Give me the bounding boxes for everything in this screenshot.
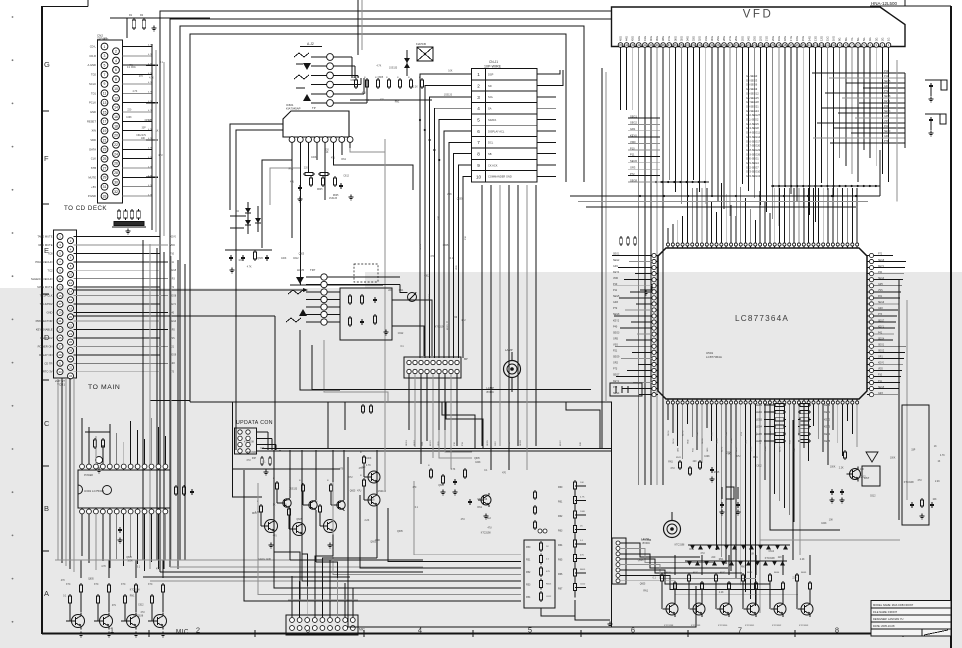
svg-text:8G: 8G [844,38,848,41]
svg-text:KEY5: KEY5 [824,440,831,443]
svg-text:7G: 7G [850,38,854,41]
svg-text:SEG8: SEG8 [630,178,637,182]
transistor Q304 [148,583,167,637]
potentiometer LEVEL body [664,512,681,538]
svg-text:SEG5: SEG5 [630,159,637,163]
wires IC601 area to left [262,160,300,248]
svg-text:GR3: GR3 [613,301,619,304]
svg-text:10K: 10K [829,520,834,522]
svg-text:3: 3 [104,54,106,58]
rotated net labels mid bundle [420,215,467,330]
svg-text:SEG9: SEG9 [750,446,752,452]
svg-text:15: 15 [103,110,107,114]
svg-text:37G: 37G [667,36,671,41]
svg-text:P21: P21 [613,350,618,353]
svg-text:G13-SEG8: G13-SEG8 [746,126,759,130]
svg-text:PDATA/ECHO: PDATA/ECHO [35,260,52,264]
svg-text:18G: 18G [783,36,787,41]
svg-text:C612: C612 [860,476,866,478]
svg-text:2: 2 [115,50,117,54]
svg-text:KEY0: KEY0 [630,134,637,138]
svg-text:12: 12 [69,281,73,285]
svg-text:47U: 47U [461,519,466,521]
svg-text:C612: C612 [870,495,876,497]
svg-text:100K: 100K [475,462,481,464]
svg-text:2.2K: 2.2K [800,559,805,561]
crystal X501 [719,487,740,515]
svg-text:MUTE: MUTE [88,175,96,179]
svg-text:SEG5: SEG5 [878,387,885,389]
svg-text:VDD: VDD [90,138,96,142]
svg-text:23: 23 [58,328,62,332]
svg-text:Q605: Q605 [257,258,263,260]
svg-text:COMMANDER GND: COMMANDER GND [488,175,512,179]
svg-text:1SS133: 1SS133 [144,120,153,122]
svg-text:R645: R645 [801,572,807,574]
svg-text:G4-SEG9: G4-SEG9 [746,87,758,91]
wire IC601 to left bus [230,124,283,450]
svg-text:4G: 4G [868,38,872,41]
svg-text:6: 6 [477,129,480,134]
svg-text:SCL: SCL [488,95,494,99]
svg-text:10K: 10K [260,448,265,450]
svg-text:R54: R54 [526,596,531,599]
svg-text:G24-SEG13: G24-SEG13 [746,174,761,178]
svg-text:KEY3: KEY3 [824,426,831,429]
svg-text:SDATA: SDATA [488,118,497,122]
value labels cluster mid bundle [388,194,466,348]
svg-text:20: 20 [69,315,73,319]
section box bottom-center top edge [150,401,612,628]
svg-text:RN1: RN1 [741,567,746,569]
svg-text:R66: R66 [558,573,563,576]
transistor Q601 [661,573,678,617]
svg-text:G9-SEG24: G9-SEG24 [746,109,759,113]
svg-text:Q605: Q605 [378,77,384,79]
svg-text:33P: 33P [911,449,916,451]
svg-text:KIA7045: KIA7045 [416,42,427,46]
svg-text:LC877364A: LC877364A [735,314,789,323]
svg-text:RN1: RN1 [719,559,724,561]
svg-text:CD TR: CD TR [44,361,52,365]
svg-text:27: 27 [58,344,62,348]
value labels cluster updata [244,441,265,462]
svg-text:C612: C612 [756,465,762,467]
svg-text:GR3: GR3 [884,85,890,88]
transistor Q-P below VCR1 [103,486,112,495]
wires U501 top pins up [668,183,857,243]
wires VCR1 bottom pins down [58,378,74,572]
bus verticals right of CN2 [152,44,164,236]
ground stubs transistor cluster [258,543,333,562]
svg-text:GR1: GR1 [613,265,619,268]
svg-text:LED5: LED5 [756,433,763,436]
svg-text:4.7K: 4.7K [580,497,585,499]
svg-text:19: 19 [58,311,62,315]
svg-text:1: 1 [477,72,480,77]
jack A.J5 contacts [286,277,307,322]
wire bundle left to bottom bus [143,560,423,581]
svg-text:SEG1: SEG1 [878,344,885,346]
svg-text:100K: 100K [704,456,710,458]
svg-text:CD-L: CD-L [90,45,97,49]
connector CN8 pins [407,360,459,373]
svg-text:43G: 43G [631,36,635,41]
VCR1 signal labels [31,235,53,374]
svg-text:GND: GND [90,110,96,114]
svg-text:100K: 100K [580,511,586,513]
transistor Q203 [316,501,337,535]
svg-text:33P: 33P [142,128,147,130]
svg-text:VSS: VSS [884,120,889,123]
connector VCR1 TO MAIN body [54,230,77,378]
svg-text:RN1: RN1 [753,457,758,459]
ground left of U501 [645,290,647,293]
svg-text:22: 22 [114,143,118,147]
svg-text:KEY4: KEY4 [824,433,831,436]
svg-text:Q605: Q605 [299,253,305,255]
svg-text:MAIN MUTE: MAIN MUTE [37,285,52,289]
diode pair D601 [404,50,410,76]
svg-text:SEG1: SEG1 [613,253,620,256]
svg-text:11: 11 [59,277,62,281]
svg-text:2.2K: 2.2K [839,467,844,469]
diode row upper [688,545,790,550]
svg-text:100K: 100K [127,560,133,562]
U501 bottom pins [666,399,858,404]
svg-text:8: 8 [477,152,480,157]
svg-text:Q605: Q605 [638,560,644,562]
value labels cluster bottom-left [61,557,161,618]
svg-text:SEG2: SEG2 [630,121,637,125]
svg-text:15: 15 [58,294,62,298]
resistor pair left of U501 [620,236,637,246]
wire bundle U501 bottom to right parts [760,470,900,540]
svg-text:29: 29 [58,353,62,357]
svg-text:Q605: Q605 [438,485,444,487]
svg-text:KEY0: KEY0 [613,271,620,274]
svg-text:10K: 10K [580,482,584,484]
frame zone ticks bottom [149,630,903,637]
svg-text:47U: 47U [362,93,367,95]
svg-text:TO CD DECK: TO CD DECK [64,205,107,212]
svg-text:KEY ENABLE: KEY ENABLE [36,327,53,331]
svg-text:HNA-12L500: HNA-12L500 [871,1,898,6]
svg-text:G22-SEG7: G22-SEG7 [746,165,759,169]
transistor Q303 [121,583,140,637]
svg-text:UPDATA CON: UPDATA CON [236,420,273,426]
svg-text:Q605: Q605 [296,519,302,521]
svg-text:P40: P40 [613,325,618,328]
svg-text:KEY0: KEY0 [824,404,831,407]
wire bundle left column down [143,240,185,569]
wires U301 top pins up [82,418,165,464]
svg-text:47U: 47U [158,155,163,157]
svg-text:SEG4: SEG4 [878,338,885,340]
svg-text:2.2K: 2.2K [719,592,724,594]
svg-text:17: 17 [58,302,62,306]
svg-text:33G: 33G [692,36,696,41]
svg-text:KEY1: KEY1 [878,326,885,328]
svg-text:G1-SEG0: G1-SEG0 [746,74,758,78]
svg-text:100K: 100K [366,458,372,460]
svg-text:DSP: DSP [488,73,494,77]
wires U301 bottom pins down [82,514,165,571]
svg-text:RN1: RN1 [252,513,257,515]
svg-text:26G: 26G [734,36,738,41]
svg-text:P72: P72 [613,307,618,310]
svg-text:SCLK: SCLK [89,82,96,86]
long wire VCR1 row to center [74,288,309,450]
IC601 reset block body [283,111,349,137]
svg-text:31: 31 [58,361,62,365]
svg-text:GND: GND [47,311,53,315]
resistor array LED rows [756,403,831,443]
svg-text:20: 20 [114,134,118,138]
wire bus loop 1 outer [160,11,611,572]
wires UPDATA to right [257,432,281,451]
svg-text:VDD: VDD [630,140,636,144]
svg-text:1SS133: 1SS133 [378,491,387,493]
transistor Q301 [66,583,85,637]
svg-text:GR3: GR3 [878,393,883,395]
svg-text:GR2: GR2 [884,135,890,138]
svg-text:41G: 41G [643,36,647,41]
svg-text:R62: R62 [558,515,563,518]
ground 2 under IC601 [299,197,301,200]
svg-text:28: 28 [114,171,118,175]
svg-text:R643: R643 [747,572,753,574]
svg-text:P73: P73 [613,368,618,371]
svg-text:PROTECTOR: PROTECTOR [36,319,53,323]
svg-text:26: 26 [114,162,118,166]
svg-text:28: 28 [69,349,73,353]
svg-text:10K: 10K [750,553,755,555]
svg-text:KTC3198: KTC3198 [247,452,257,454]
resistor ladder RN52 [558,480,586,598]
wire right bus verticals [566,68,606,449]
svg-text:1K: 1K [156,131,159,133]
svg-text:XIN: XIN [92,129,97,133]
svg-text:47U: 47U [488,528,493,530]
connector MIC pins [290,618,356,631]
svg-text:38G: 38G [661,36,665,41]
junction row under VFD left [653,181,709,183]
svg-text:KEY1: KEY1 [824,411,831,414]
svg-text:23G: 23G [752,36,756,41]
svg-text:24G: 24G [746,36,750,41]
svg-text:MIC: MIC [359,628,366,632]
wire verticals table area to bottom [482,185,536,470]
wire bundle table to right side [537,70,563,176]
svg-text:SEG9: SEG9 [884,130,891,133]
svg-text:R67: R67 [558,588,563,591]
svg-text:4.7K: 4.7K [247,266,252,268]
svg-text:SEG2: SEG2 [414,439,416,446]
svg-text:25: 25 [58,336,62,340]
svg-text:SEG8: SEG8 [717,438,719,444]
svg-text:P11: P11 [630,153,635,157]
svg-text:SEG1: SEG1 [420,243,422,250]
svg-text:4.7K: 4.7K [366,465,371,467]
svg-text:C612: C612 [398,333,404,335]
svg-text:G7-SEG18: G7-SEG18 [746,100,759,104]
junction dots on table wires [419,119,440,161]
svg-text:R61: R61 [558,501,563,504]
svg-text:Q605: Q605 [126,557,132,559]
svg-text:TD2: TD2 [91,73,97,77]
wires bottom-left transistors to bus [55,560,330,578]
svg-text:17G: 17G [789,36,793,41]
svg-text:47U: 47U [918,480,923,482]
svg-text:34G: 34G [685,36,689,41]
svg-text:SEG8: SEG8 [613,313,620,316]
svg-text:18: 18 [69,306,73,310]
VFD net labels column middle [746,74,761,178]
svg-text:G10-SEG27: G10-SEG27 [746,113,761,117]
wire bus loop 3 [180,26,584,560]
transistor Q605 [769,573,786,617]
svg-text:21: 21 [103,138,107,142]
svg-text:6: 6 [115,68,117,72]
jack A.J2 contacts [294,53,311,101]
svg-text:2.2K: 2.2K [413,86,418,88]
svg-text:24: 24 [69,332,73,336]
svg-text:RN1: RN1 [399,290,404,292]
svg-text:2.2K: 2.2K [365,520,370,522]
svg-text:G16-SEG17: G16-SEG17 [746,139,761,143]
transistor Q604 [742,573,759,617]
svg-text:P72: P72 [884,90,889,93]
svg-text:KTC3198: KTC3198 [130,589,140,591]
svg-text:KTC3202: KTC3202 [772,625,782,627]
connector CN2 TO CD DECK body [98,40,123,203]
svg-text:KTC3203: KTC3203 [799,625,809,627]
wires right transistor column up [664,555,810,627]
svg-text:SB: SB [488,152,492,156]
svg-text:47U: 47U [273,535,278,537]
svg-text:47U: 47U [141,612,146,614]
svg-text:100K: 100K [890,458,896,460]
svg-text:G19-SEG26: G19-SEG26 [746,152,761,156]
svg-text:KTC3198: KTC3198 [477,499,487,501]
svg-text:SEG7: SEG7 [878,320,885,322]
resistor mini stack [534,490,547,533]
svg-text:G3-SEG6: G3-SEG6 [746,83,758,87]
transistor Q602 [688,573,705,617]
svg-text:P42: P42 [613,386,618,389]
svg-text:RTC-3V: RTC-3V [43,370,53,374]
svg-text:GR1: GR1 [422,441,424,446]
svg-text:2: 2 [477,83,480,88]
svg-text:32: 32 [69,366,73,370]
svg-text:R65: R65 [558,559,563,562]
svg-text:KEY0: KEY0 [780,446,782,452]
svg-text:1K: 1K [273,505,276,507]
svg-text:DATE: 2005-10-08: DATE: 2005-10-08 [873,624,895,628]
wire bus loop 2 [170,19,611,567]
svg-text:LED2: LED2 [756,411,763,414]
svg-text:U301 LC75341: U301 LC75341 [84,489,105,493]
svg-text:G15-SEG14: G15-SEG14 [746,135,761,139]
svg-text:47U: 47U [246,460,251,462]
svg-text:G18-SEG23: G18-SEG23 [746,148,761,152]
svg-text:SEG3: SEG3 [731,438,733,444]
section box bottom-center left edge [233,402,263,497]
svg-text:KTC3198: KTC3198 [765,558,775,560]
scan gray band lower-left [0,288,365,648]
transistor Q302 [94,583,113,637]
wire bus loop 4 [190,34,566,402]
value labels cluster U501 bottom [668,452,762,474]
svg-text:RN1: RN1 [668,462,673,464]
svg-text:11G: 11G [826,36,830,41]
transistor Q202 [285,504,306,538]
scan gray band lower-right [365,272,962,648]
svg-text:R605: R605 [546,584,552,586]
svg-text:SEG2: SEG2 [770,430,772,436]
top-left supply cluster [102,14,210,41]
decoupling capacitor C522 [925,114,946,136]
svg-text:47U: 47U [357,490,362,492]
wire bus rows below VFD drops [570,195,880,207]
IC RESET block [862,452,880,486]
svg-text:10: 10 [69,273,73,277]
svg-text:4.7K: 4.7K [451,469,456,471]
svg-text:VDD: VDD [102,37,109,41]
svg-text:18: 18 [114,124,118,128]
svg-text:KTC3198: KTC3198 [481,532,491,534]
svg-text:P.GND: P.GND [88,194,96,198]
svg-text:47U: 47U [546,571,550,573]
svg-text:47U: 47U [580,555,584,557]
transistor Q606 [796,573,813,617]
svg-text:G21-SEG4: G21-SEG4 [746,161,759,165]
jack A.J2 pins [311,54,333,107]
wires jack A.J5 down [300,330,388,401]
svg-text:P10: P10 [878,375,883,377]
svg-text:TC2: TC2 [47,268,53,272]
connector LED board pins [616,541,620,583]
svg-text:44G: 44G [625,36,629,41]
svg-text:47U: 47U [355,77,360,79]
svg-text:KEY2: KEY2 [824,418,831,421]
U501 bottom pin labels [668,430,801,452]
svg-text:4.7K: 4.7K [940,455,945,457]
svg-text:F: F [44,154,49,163]
svg-text:KEY0: KEY0 [170,236,177,238]
svg-text:TD1: TD1 [91,91,97,95]
svg-text:P11: P11 [884,75,889,78]
svg-text:Q605: Q605 [474,458,480,460]
svg-text:TAPE MUTE: TAPE MUTE [37,235,52,239]
svg-text:10P-WIRE: 10P-WIRE [484,65,502,69]
ground under IC601 [350,195,352,198]
wire right loop verticals upper [880,60,897,202]
svg-text:VSS: VSS [741,431,743,436]
svg-text:36G: 36G [673,36,677,41]
svg-text:10K: 10K [860,469,865,471]
svg-text:7: 7 [104,73,106,77]
svg-text:33P: 33P [350,80,355,82]
wires jack A.J2 to right [333,57,367,103]
svg-text:28G: 28G [722,36,726,41]
svg-text:24: 24 [114,152,118,156]
svg-text:10K: 10K [448,71,453,73]
svg-text:VDD: VDD [456,265,458,270]
capacitor cluster left of jack2 [225,250,272,273]
svg-text:34: 34 [69,374,73,378]
